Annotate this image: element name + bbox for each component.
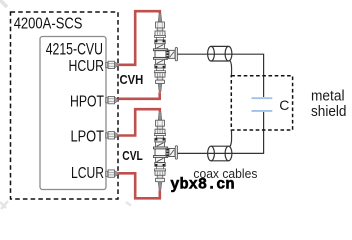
watermark fragment top-left corner bbox=[0, 0, 7, 7]
wire CVH tee to shield (black) bbox=[177, 54, 264, 97]
coax cable lower bbox=[208, 146, 232, 161]
wire HPOT to CVH tee bottom (red) bbox=[118, 92, 160, 99]
svg-text:C: C bbox=[279, 97, 289, 113]
BNC tee CVL bbox=[153, 111, 177, 190]
wire HCUR to CVH tee top (red) bbox=[118, 11, 160, 65]
watermark fragment near LCUR wire bbox=[126, 202, 131, 206]
coax shield drain to box bottom (curve) bbox=[230, 131, 232, 148]
svg-text:HCUR: HCUR bbox=[69, 58, 105, 75]
capacitor C top plate bbox=[252, 97, 273, 99]
terminal plug HPOT bbox=[106, 96, 118, 103]
instrument box 4200A-SCS (dashed) bbox=[11, 12, 119, 199]
svg-text:CVH: CVH bbox=[120, 73, 144, 87]
svg-text:CVL: CVL bbox=[122, 149, 143, 163]
capacitor C bottom plate bbox=[252, 110, 273, 112]
terminal plug LCUR bbox=[106, 170, 118, 177]
svg-text:4200A-SCS: 4200A-SCS bbox=[14, 16, 83, 33]
svg-text:metal: metal bbox=[311, 87, 345, 104]
coax cable upper bbox=[208, 46, 232, 61]
terminal plug LPOT bbox=[106, 132, 118, 139]
terminal plug HCUR bbox=[106, 61, 118, 68]
svg-text:shield: shield bbox=[311, 103, 347, 120]
watermark fragment bottom-left corner bbox=[0, 201, 8, 209]
wire LPOT to CVL tee top (red) bbox=[118, 109, 160, 135]
svg-text:LPOT: LPOT bbox=[71, 128, 105, 145]
wire CVL tee to shield (black) bbox=[177, 112, 264, 153]
card box 4215-CVU bbox=[40, 37, 106, 190]
svg-text:4215-CVU: 4215-CVU bbox=[46, 41, 103, 59]
wire LCUR to CVL tee bottom (red) bbox=[118, 173, 160, 198]
svg-text:HPOT: HPOT bbox=[70, 93, 104, 110]
coax shield drain to box top (curve) bbox=[230, 60, 232, 76]
BNC tee CVH bbox=[153, 13, 177, 92]
svg-text:ybx8.cn: ybx8.cn bbox=[170, 176, 234, 194]
metal shield box (dashed) bbox=[231, 76, 292, 130]
svg-text:LCUR: LCUR bbox=[71, 165, 104, 182]
